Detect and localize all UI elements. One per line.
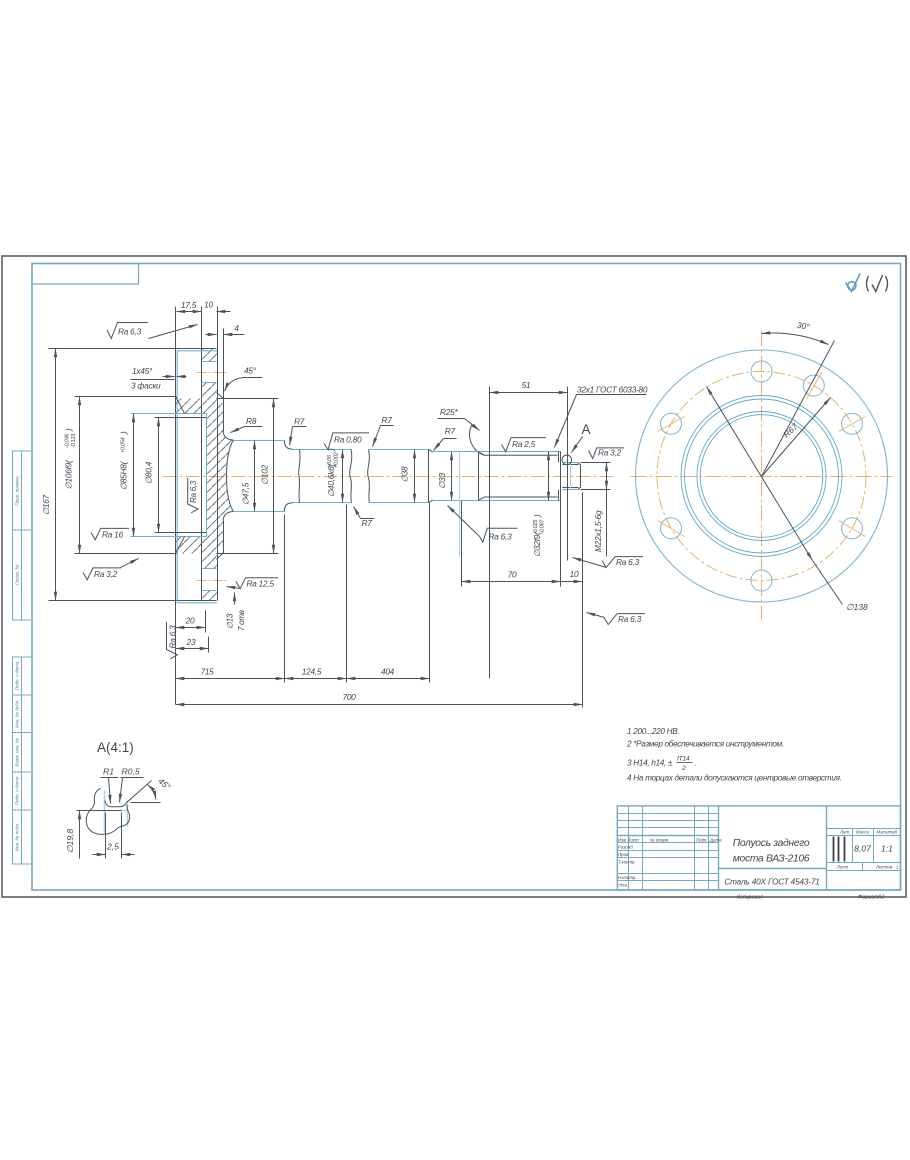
svg-text:Ra 6,3: Ra 6,3 xyxy=(618,614,642,624)
svg-text:Утв.: Утв. xyxy=(618,883,628,888)
svg-text:∅102: ∅102 xyxy=(260,464,270,485)
svg-text:R7: R7 xyxy=(362,518,373,528)
bearing seat left relief curve xyxy=(299,449,300,503)
dim 715 xyxy=(284,515,286,683)
detail A circle xyxy=(562,455,572,465)
journal thread lines xyxy=(563,464,579,466)
svg-text:Ra 16: Ra 16 xyxy=(102,530,124,540)
break line at seat end xyxy=(350,449,352,503)
svg-text:10: 10 xyxy=(570,569,579,579)
svg-text:∅167: ∅167 xyxy=(41,494,51,515)
hub transition wave xyxy=(227,440,234,512)
svg-text:Пров.: Пров. xyxy=(618,852,630,857)
bearing seat bottom edge xyxy=(293,502,351,504)
circle d102 xyxy=(685,399,839,553)
dim dia106f9 xyxy=(79,397,81,554)
blue layer lines xyxy=(104,791,106,833)
technical notes xyxy=(626,727,842,783)
svg-text:∅85Н8(: ∅85Н8( xyxy=(119,460,129,490)
svg-text:моста ВАЗ-2106: моста ВАЗ-2106 xyxy=(733,854,810,865)
svg-text:3 фаски: 3 фаски xyxy=(131,381,161,391)
centerline vertical xyxy=(761,331,763,621)
dim 404 xyxy=(429,503,431,683)
flange boss back face xyxy=(223,329,225,432)
svg-text:Дата: Дата xyxy=(709,837,722,842)
flag Ra 6,3 right lower xyxy=(604,614,645,625)
svg-text:-0,025: -0,025 xyxy=(533,519,539,534)
bore inner step bottom xyxy=(155,532,207,534)
flag Ra 3,2 left xyxy=(83,568,121,580)
fillet R8 bottom xyxy=(223,512,233,521)
svg-text:IT14: IT14 xyxy=(677,756,690,763)
svg-text:R7: R7 xyxy=(445,426,456,436)
bore opening ext line bottom xyxy=(75,553,177,555)
spline outer top xyxy=(477,451,561,453)
svg-text:Копировал: Копировал xyxy=(737,895,763,901)
hub right face xyxy=(284,441,286,445)
dim 17,5 xyxy=(177,311,202,313)
45 deg arc xyxy=(148,785,157,800)
main view: axle shaft section xyxy=(49,307,617,705)
flange front face xyxy=(175,307,177,705)
dim dia102 xyxy=(273,399,275,554)
bore inner step top xyxy=(155,417,207,419)
svg-text:Ra 6,3: Ra 6,3 xyxy=(118,327,142,337)
bolt circle centerline xyxy=(657,372,866,581)
flange top edge xyxy=(49,348,217,350)
bore entry chamfer top xyxy=(176,397,185,414)
svg-text:Разраб.: Разраб. xyxy=(618,845,634,850)
svg-text:715: 715 xyxy=(200,667,214,677)
dim 10 right xyxy=(582,493,584,708)
right section xyxy=(826,806,828,891)
detail view A(4:1) xyxy=(65,740,173,859)
dim dia38 xyxy=(414,450,416,503)
svg-text:М22х1,5-6g: М22х1,5-6g xyxy=(593,510,603,552)
step d38/d33 R7 xyxy=(428,450,432,453)
bolt hole centerline bottom xyxy=(197,580,229,582)
svg-text:Ra 3,2: Ra 3,2 xyxy=(598,448,622,458)
left margin graph boxes xyxy=(13,451,33,865)
dim dia33 xyxy=(451,452,453,501)
svg-text:Т.контр.: Т.контр. xyxy=(618,859,636,864)
name/material divider xyxy=(719,868,827,870)
svg-text:10: 10 xyxy=(204,300,213,310)
bore bottom edge xyxy=(131,536,207,538)
boss bottom edge + ext xyxy=(217,553,279,555)
svg-text:Формат: Формат xyxy=(858,895,879,901)
svg-text:+0,08: +0,08 xyxy=(327,454,333,468)
svg-text:Полуось заднего: Полуось заднего xyxy=(733,838,810,849)
left section verticals xyxy=(628,806,630,891)
svg-text:32х1 ГОСТ 6033-80: 32х1 ГОСТ 6033-80 xyxy=(577,385,648,395)
bolt hole edges top xyxy=(202,361,217,363)
30 deg radial line xyxy=(762,341,835,477)
journal bottom edge xyxy=(563,489,579,491)
hub bottom edge xyxy=(234,511,285,513)
flange outer circle d167 xyxy=(636,350,888,602)
svg-text:∅138: ∅138 xyxy=(846,602,868,612)
svg-text:4: 4 xyxy=(234,323,239,333)
svg-text:1:1: 1:1 xyxy=(881,844,893,854)
dim dia167 xyxy=(55,349,57,601)
bolt hole radial ticks xyxy=(658,373,866,537)
svg-text:Лист: Лист xyxy=(836,865,849,870)
svg-text:Масштаб: Масштаб xyxy=(877,829,898,834)
svg-text:51: 51 xyxy=(522,380,531,390)
circle d80.4 xyxy=(700,415,823,538)
dimensions of main view xyxy=(41,300,611,708)
leader labels and roughness flags xyxy=(83,323,648,660)
hatch flange section xyxy=(175,349,233,601)
svg-text:Изм Лист: Изм Лист xyxy=(618,837,639,842)
dim dia32f9 xyxy=(548,452,550,501)
dim dia19,8 xyxy=(79,811,81,859)
svg-text:Ra 6,3: Ra 6,3 xyxy=(189,480,198,503)
hole callout dia13 7 holes xyxy=(234,593,236,605)
dim 23 xyxy=(208,637,210,653)
svg-text:∅80,4: ∅80,4 xyxy=(144,461,154,484)
svg-text:Сталь 40Х ГОСТ 4543-71: Сталь 40Х ГОСТ 4543-71 xyxy=(724,878,819,887)
groove profile xyxy=(86,789,129,835)
svg-text:R7: R7 xyxy=(294,417,305,427)
dia138 dimension line xyxy=(707,387,813,561)
30 deg arc dimension xyxy=(762,333,829,344)
dim dia80,4 xyxy=(158,418,160,533)
thread runout line d33 xyxy=(459,453,461,557)
svg-text:8,07: 8,07 xyxy=(854,844,872,854)
flange rim back face xyxy=(217,307,219,601)
svg-text:Масса: Масса xyxy=(856,829,870,834)
neck R7 top xyxy=(285,444,293,449)
svg-text:2,5: 2,5 xyxy=(106,842,119,852)
d38 top edge xyxy=(369,449,429,451)
svg-text:R7: R7 xyxy=(382,415,393,425)
d33 bottom edge xyxy=(433,500,477,502)
svg-text:A(4:1): A(4:1) xyxy=(97,740,134,755)
svg-text:4 На торцах детали допускаютс: 4 На торцах детали допускаются центровые… xyxy=(627,774,842,783)
R67 radius dimension xyxy=(762,398,831,477)
bore opening ext line top xyxy=(75,396,177,398)
svg-text:№ докум.: № докум. xyxy=(650,837,669,842)
dim 4 xyxy=(206,334,217,336)
svg-text:Ra 6,3: Ra 6,3 xyxy=(616,557,640,567)
fillet R8 top xyxy=(223,431,233,440)
top-right (v) mark xyxy=(867,275,888,292)
flag Ra 12,5 xyxy=(236,578,278,589)
flange outline blue overlay xyxy=(177,351,217,603)
groove inner notch xyxy=(105,801,126,807)
hub top edge xyxy=(234,440,285,442)
title block xyxy=(617,806,900,901)
bolt hole centerline top xyxy=(197,372,229,374)
svg-text:∅47,5: ∅47,5 xyxy=(241,482,251,505)
svg-text:): ) xyxy=(119,431,129,435)
svg-text:∅106f9(: ∅106f9( xyxy=(64,459,74,489)
spline outer bottom xyxy=(477,500,561,502)
svg-text:∅13: ∅13 xyxy=(226,613,235,629)
dim M22x1,5-6g xyxy=(581,462,611,464)
bearing seat top edge xyxy=(293,449,351,451)
dim dia40,6k6 xyxy=(342,450,344,503)
svg-text:1х45°: 1х45° xyxy=(132,366,153,376)
journal end face xyxy=(580,466,582,487)
svg-text:124,5: 124,5 xyxy=(302,667,322,677)
svg-text:Листов: Листов xyxy=(875,865,893,870)
flag Ra 0,80 xyxy=(324,433,369,450)
title block small texts xyxy=(618,829,899,887)
flag Ra 6,3 top-left xyxy=(107,323,148,339)
top-right surface finish symbol xyxy=(846,274,861,292)
bore entry chamfer bottom xyxy=(176,537,185,554)
d33 top edge xyxy=(433,451,477,453)
svg-text:3 Н14, h14, ±: 3 Н14, h14, ± xyxy=(627,759,673,768)
flag Ra 6,3 rotated in bore xyxy=(188,478,199,513)
svg-text:17,5: 17,5 xyxy=(181,300,197,310)
svg-text:-0,087: -0,087 xyxy=(540,519,546,534)
top-left applicability box xyxy=(32,264,139,285)
journal runout blue xyxy=(570,463,572,490)
horizontal ref line xyxy=(131,802,161,804)
dim 20 xyxy=(205,611,207,633)
centerline horizontal xyxy=(631,476,893,478)
svg-text:70: 70 xyxy=(508,570,517,580)
svg-text:Ra 6,3: Ra 6,3 xyxy=(168,625,178,649)
svg-text:Ra 6,3: Ra 6,3 xyxy=(489,532,513,542)
svg-text:2 *Размер обеспечивается инст: 2 *Размер обеспечивается инструментом. xyxy=(626,740,784,749)
svg-text:Ra 12,5: Ra 12,5 xyxy=(247,579,275,589)
boss top edge + ext xyxy=(217,398,279,400)
centerline main axis xyxy=(163,476,617,478)
bolt hole edges bottom xyxy=(202,568,217,570)
svg-text:404: 404 xyxy=(381,667,395,677)
spline runout arc R25 top xyxy=(470,425,485,456)
svg-text:+0,002: +0,002 xyxy=(334,452,340,468)
svg-text:.: . xyxy=(695,759,697,768)
svg-text:Н.контр.: Н.контр. xyxy=(618,875,637,880)
dim dia47,5 xyxy=(254,441,256,512)
flange front circular view xyxy=(631,320,893,621)
svg-text:Взам. инв. №: Взам. инв. № xyxy=(15,738,20,766)
svg-text:Справ. №: Справ. № xyxy=(15,565,20,586)
svg-text:30°: 30° xyxy=(796,320,811,332)
break line at d38 start xyxy=(368,450,370,503)
dim dia85H8 xyxy=(133,414,135,537)
neck R7 bottom xyxy=(285,503,293,508)
bore top edge xyxy=(131,413,207,415)
bolt holes 7x d13 xyxy=(661,361,863,591)
svg-text:Подп.: Подп. xyxy=(696,837,708,842)
spline end groove xyxy=(558,452,560,463)
svg-text:20: 20 xyxy=(185,616,195,626)
flange bottom edge xyxy=(49,600,217,602)
dim 70 xyxy=(461,501,463,587)
spline start vertical xyxy=(478,452,480,501)
dim 10 top xyxy=(217,311,231,313)
45 deg edge line xyxy=(126,781,152,804)
flange rim front face xyxy=(201,307,203,601)
svg-text:Инв. № дубл.: Инв. № дубл. xyxy=(15,700,20,728)
spline minor top xyxy=(479,452,558,456)
d38 bottom edge xyxy=(369,502,429,504)
svg-text:Ra 0,80: Ra 0,80 xyxy=(334,434,362,444)
svg-text:): ) xyxy=(64,428,74,432)
svg-text:Подп. и дата: Подп. и дата xyxy=(15,776,20,805)
svg-text:): ) xyxy=(532,514,542,518)
svg-text:∅38: ∅38 xyxy=(400,466,410,482)
svg-text:1 200...220 НВ.: 1 200...220 НВ. xyxy=(627,727,679,736)
svg-text:Лит.: Лит. xyxy=(839,829,850,834)
svg-text:R8: R8 xyxy=(246,416,257,426)
left margin rotated labels xyxy=(15,475,20,851)
circle d106 xyxy=(681,396,842,557)
spline minor bottom xyxy=(479,497,558,500)
svg-text:Подп. и дата: Подп. и дата xyxy=(15,661,20,690)
svg-text:45°: 45° xyxy=(244,366,257,376)
sheet inner blue frame xyxy=(32,264,901,891)
svg-text:∅33: ∅33 xyxy=(437,473,447,489)
svg-text:А2: А2 xyxy=(877,895,884,901)
journal end chamfer xyxy=(578,463,581,490)
svg-text:∅19,8: ∅19,8 xyxy=(65,829,75,853)
sheet outer border xyxy=(2,256,906,897)
svg-text:7 отв: 7 отв xyxy=(237,610,246,631)
surface line xyxy=(77,810,122,812)
boss chamfer top xyxy=(217,393,224,399)
svg-text:А: А xyxy=(582,422,591,437)
svg-text:R0,5: R0,5 xyxy=(122,767,140,777)
dim 2,5 xyxy=(105,813,107,859)
svg-text:-0,036: -0,036 xyxy=(65,433,71,448)
dim 124,5 xyxy=(346,505,348,683)
svg-text:Ra 3,2: Ra 3,2 xyxy=(94,569,118,579)
svg-text:R25*: R25* xyxy=(440,407,458,417)
svg-text:23: 23 xyxy=(186,637,196,647)
flag Ra 2,5 xyxy=(502,438,547,452)
svg-text:Инв. № подл.: Инв. № подл. xyxy=(15,823,20,852)
boss chamfer bottom xyxy=(217,553,224,560)
flag Ra 6,3 right upper xyxy=(602,557,643,568)
circle d85 xyxy=(697,412,826,541)
svg-text:Перв. примен.: Перв. примен. xyxy=(15,475,20,506)
lit cell marks xyxy=(834,837,845,862)
flag Ra 6,3 rotated below flange xyxy=(167,622,178,659)
svg-text:R1: R1 xyxy=(103,767,114,777)
svg-text:Ra 2,5: Ra 2,5 xyxy=(512,439,536,449)
left section horizontals xyxy=(618,813,719,815)
journal top edge xyxy=(563,462,579,464)
svg-text:-0,123: -0,123 xyxy=(71,433,77,448)
flag Ra 16 in bore xyxy=(91,528,129,539)
dim 700 xyxy=(176,704,583,706)
flag Ra 3,2 right xyxy=(589,448,625,459)
svg-text:+0,054: +0,054 xyxy=(121,437,127,453)
svg-text:2: 2 xyxy=(681,765,686,772)
dim 51 xyxy=(489,387,491,679)
svg-text:700: 700 xyxy=(342,692,356,702)
flag Ra 6,3 spline bottom xyxy=(479,528,518,542)
bore right face xyxy=(206,414,208,537)
